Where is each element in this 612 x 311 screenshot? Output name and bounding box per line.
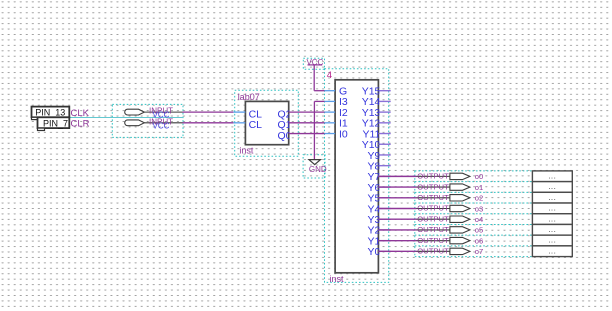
selection box edge output row 7 (415, 245, 533, 247)
svg-text:o1: o1 (475, 183, 483, 192)
output port o5 stub (417, 229, 450, 231)
decoder pin stub Y4 (378, 208, 390, 210)
selection box around VCC symbol (303, 58, 324, 69)
decoder pin stub I0 (blue) (325, 133, 336, 135)
decoder pin stub I2 (blue) (325, 111, 336, 113)
svg-text:o4: o4 (475, 215, 483, 224)
svg-text:...: ... (548, 182, 556, 191)
output port o5 flag (450, 227, 470, 233)
wire Y4 to output o3 (378, 208, 416, 210)
unassigned pin box for o4 (532, 214, 572, 225)
svg-text:OUTPUT: OUTPUT (417, 225, 449, 234)
svg-text:...: ... (548, 193, 556, 202)
lab07 pin stub CLK (blue) (233, 111, 245, 113)
selection box edge output row 8 (415, 256, 533, 258)
selection box edge output row 0 (415, 170, 533, 172)
decoder pin stub Y7 (378, 175, 390, 177)
output port o0 stub (417, 175, 450, 177)
svg-text:OUTPUT: OUTPUT (417, 236, 449, 245)
ground symbol GND triangle (309, 160, 321, 165)
svg-text:...: ... (548, 171, 556, 180)
input port CLK flag (125, 109, 145, 115)
pin box tab PIN_7 (38, 128, 45, 130)
svg-text:o3: o3 (475, 204, 483, 213)
svg-text:4: 4 (327, 70, 332, 81)
output port o7 stub (417, 250, 450, 252)
unassigned pin box for o2 (532, 192, 572, 203)
decoder pin stub I3 (blue) (325, 100, 336, 102)
svg-text:o7: o7 (475, 247, 483, 256)
svg-text:VCC: VCC (153, 121, 170, 130)
decoder pin stub Y13 (378, 111, 390, 113)
svg-text:...: ... (548, 214, 556, 223)
svg-text:CL: CL (249, 119, 263, 131)
unassigned pin box for o7 (532, 246, 572, 257)
svg-text:o6: o6 (475, 236, 483, 245)
input port CLR flag (125, 120, 145, 126)
svg-text:OUTPUT: OUTPUT (417, 193, 449, 202)
input port CLR stub (144, 122, 182, 124)
wire Y6 to output o1 (378, 186, 416, 188)
decoder pin stub Y14 (378, 100, 390, 102)
output port o3 flag (450, 205, 470, 211)
lab07 pin stub CLR (blue) (233, 122, 245, 124)
output port o2 flag (450, 195, 470, 201)
svg-text:VCC: VCC (306, 58, 323, 67)
output port o6 flag (450, 237, 470, 243)
decoder pin stub Y2 (378, 229, 390, 231)
selection box edge output row 3 (415, 202, 533, 204)
output port o1 stub (417, 186, 450, 188)
selection box edge output row 4 (415, 213, 533, 215)
output port o1 flag (450, 184, 470, 190)
wire CLR to lab07 (183, 122, 234, 124)
selection box edge output row 5 (415, 223, 533, 225)
svg-text:CLK: CLK (71, 108, 90, 119)
svg-text:o5: o5 (475, 226, 483, 235)
wire Y0 to output o7 (378, 250, 416, 252)
selection box edge output row 1 (415, 181, 533, 183)
selection box around input ports (112, 104, 183, 137)
decoder pin stub Y0 (378, 250, 390, 252)
svg-text:inst: inst (330, 274, 345, 284)
output port o2 stub (417, 197, 450, 199)
selection box around GND symbol (303, 155, 325, 178)
component lab07 body (245, 101, 288, 144)
output port o4 stub (417, 218, 450, 220)
pin assignment box PIN_13 (32, 107, 70, 118)
svg-text:...: ... (548, 204, 556, 213)
decoder pin stub G (blue) (325, 90, 336, 92)
wire I3 to GND vertical (313, 101, 315, 159)
decoder pin stub Y12 (378, 122, 390, 124)
decoder pin stub Y8 (378, 165, 390, 167)
decoder pin stub Y1 (378, 240, 390, 242)
output port o3 stub (417, 208, 450, 210)
wire Y3 to output o4 (378, 218, 416, 220)
svg-text:...: ... (548, 236, 556, 245)
wire VCC vertical (313, 66, 315, 91)
unassigned pin box for o0 (532, 171, 572, 182)
svg-text:inst: inst (239, 146, 254, 156)
unassigned pin box for o5 (532, 224, 572, 235)
wire Q0 to I0 (289, 133, 325, 135)
svg-text:OUTPUT: OUTPUT (417, 172, 449, 181)
svg-text:OUTPUT: OUTPUT (417, 214, 449, 223)
svg-text:I0: I0 (339, 128, 348, 140)
svg-text:OUTPUT: OUTPUT (417, 182, 449, 191)
unassigned pin box for o3 (532, 203, 572, 214)
wire Q1 to I1 (289, 122, 325, 124)
svg-text:PIN_13: PIN_13 (35, 108, 65, 118)
unassigned pin box for o6 (532, 235, 572, 246)
wire Y7 to output o0 (378, 175, 416, 177)
decoder pin stub Y3 (378, 218, 390, 220)
output port o6 stub (417, 240, 450, 242)
wire VCC to G (314, 90, 324, 92)
decoder pin stub I1 (blue) (325, 122, 336, 124)
svg-text:OUTPUT: OUTPUT (417, 247, 449, 256)
pin assignment box PIN_7 (38, 117, 70, 128)
input port CLK stub (144, 111, 182, 113)
wire CLK to lab07 (183, 111, 234, 113)
selection box around lab07 (235, 90, 299, 156)
selection box around decoder inst (325, 69, 389, 283)
decoder pin stub Y9 (378, 154, 390, 156)
wire I3 to GND horizontal (314, 100, 324, 102)
svg-text:CLR: CLR (71, 119, 90, 130)
component decoder body (335, 80, 378, 273)
output port o0 flag (450, 173, 470, 179)
selected wire (cyan) from pin area (70, 117, 184, 119)
svg-text:o0: o0 (475, 172, 483, 181)
power symbol VCC bar (308, 64, 323, 66)
svg-text:GND: GND (309, 165, 327, 174)
svg-text:o2: o2 (475, 194, 483, 203)
svg-text:PIN_7: PIN_7 (43, 118, 68, 128)
svg-text:OUTPUT: OUTPUT (417, 204, 449, 213)
wire Y2 to output o5 (378, 229, 416, 231)
wire Y1 to output o6 (378, 240, 416, 242)
wire Y5 to output o2 (378, 197, 416, 199)
unassigned pin box for o1 (532, 182, 572, 193)
decoder pin stub Y10 (378, 143, 390, 145)
selection box edge output row 6 (415, 234, 533, 236)
decoder pin stub Y5 (378, 197, 390, 199)
svg-text:...: ... (548, 246, 556, 255)
selection box edge output row 2 (415, 191, 533, 193)
selection box left edge outputs (414, 171, 416, 257)
wire Q2 to I2 (289, 111, 325, 113)
decoder pin stub Y6 (378, 186, 390, 188)
decoder pin stub Y15 (378, 90, 390, 92)
output port o4 flag (450, 216, 470, 222)
svg-text:Y0: Y0 (368, 246, 381, 258)
svg-text:...: ... (548, 225, 556, 234)
decoder pin stub Y11 (378, 133, 390, 135)
pin box tab PIN_13 (32, 117, 38, 119)
output port o7 flag (450, 248, 470, 254)
